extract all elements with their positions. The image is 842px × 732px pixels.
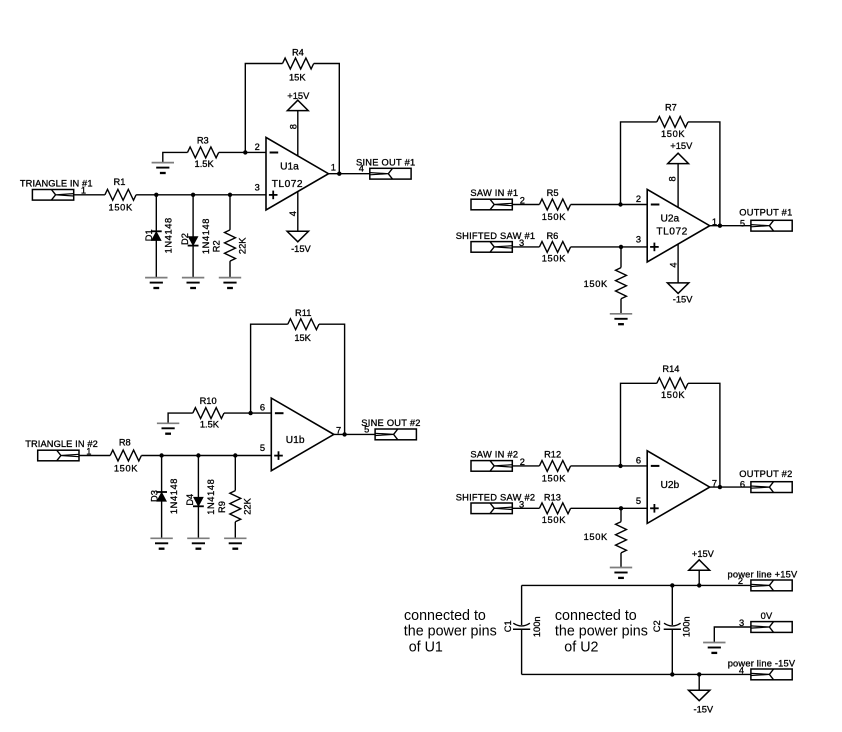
svg-text:+15V: +15V: [692, 549, 715, 559]
svg-text:of U1: of U1: [409, 640, 443, 656]
ground at R10: [157, 413, 193, 434]
resistor R9 22K: [217, 456, 253, 539]
svg-text:R12: R12: [544, 449, 561, 459]
node at D3: [159, 453, 163, 457]
connector SHIFTED SAW #2 (pin 3): [456, 492, 536, 513]
wire to op-amp - input: [224, 412, 271, 414]
resistor 150K to ground: [584, 508, 627, 567]
svg-text:R4: R4: [292, 47, 304, 57]
ground: [219, 277, 241, 279]
ground: [150, 537, 172, 539]
svg-text:C2: C2: [652, 620, 662, 632]
svg-text:R3: R3: [197, 135, 209, 145]
op-amp U1a: [266, 137, 329, 210]
svg-text:100n: 100n: [682, 616, 692, 637]
connector SINE OUT #1 (pin 4): [356, 157, 415, 179]
ground at R3: [152, 152, 188, 173]
note: connected to the power pins of U1: [404, 608, 497, 656]
svg-text:C1: C1: [503, 620, 513, 632]
connector SINE OUT #2 (pin 5): [361, 418, 420, 440]
wire op-amp output: [329, 173, 370, 175]
svg-text:15K: 15K: [294, 333, 311, 343]
node C2 bottom: [670, 672, 674, 676]
svg-text:D4: D4: [185, 494, 195, 506]
wire to op-amp - input: [571, 465, 648, 467]
svg-text:SINE OUT #1: SINE OUT #1: [356, 157, 415, 167]
svg-text:1N4148: 1N4148: [206, 479, 216, 515]
op-amp U2b: [647, 451, 710, 524]
svg-text:4: 4: [288, 211, 298, 216]
connector TRIANGLE IN #2 (pin 1): [25, 439, 98, 461]
connector TRIANGLE IN #1 (pin 1): [20, 178, 93, 200]
svg-text:150K: 150K: [542, 254, 566, 264]
resistor R3 1.5K: [188, 135, 219, 169]
connector SAW IN #1 (pin 2): [470, 188, 525, 210]
svg-text:8: 8: [667, 176, 677, 181]
svg-text:150K: 150K: [542, 515, 566, 525]
resistor R7 150K feedback: [621, 103, 720, 226]
node at R2: [228, 193, 232, 197]
wire R to op-amp + input: [141, 455, 271, 457]
svg-text:R13: R13: [544, 492, 561, 502]
connector OUTPUT #1 (pin 5): [739, 208, 792, 232]
svg-text:150K: 150K: [584, 279, 608, 289]
ground: [187, 537, 209, 539]
node at feedback: [248, 411, 252, 415]
note: connected to the power pins of U2: [555, 608, 648, 656]
svg-text:D3: D3: [149, 490, 159, 502]
wire to op-amp - input: [571, 204, 648, 206]
svg-text:4: 4: [739, 665, 744, 675]
svg-text:100n: 100n: [532, 616, 542, 637]
ground: [224, 537, 246, 539]
svg-text:-15V: -15V: [673, 295, 693, 305]
diode D1 1N4148: [144, 195, 174, 278]
svg-text:TL072: TL072: [272, 179, 303, 190]
wire: [512, 246, 539, 248]
svg-text:U1b: U1b: [286, 435, 305, 446]
wire: [512, 465, 539, 467]
svg-text:R1: R1: [114, 177, 126, 187]
resistor R2 22K: [212, 195, 248, 278]
svg-text:5: 5: [260, 443, 265, 453]
svg-text:150K: 150K: [114, 463, 138, 473]
ground 0V: [703, 642, 725, 644]
svg-text:R8: R8: [119, 438, 131, 448]
svg-text:15K: 15K: [289, 72, 306, 82]
svg-text:2: 2: [738, 576, 743, 586]
wire: [512, 507, 539, 509]
wire 0V to ground: [714, 627, 751, 643]
op-amp U2a: [647, 189, 710, 262]
connector SAW IN #2 (pin 2): [470, 449, 525, 471]
wire input to R: [79, 455, 110, 457]
svg-text:-15V: -15V: [291, 244, 311, 254]
svg-text:the power pins: the power pins: [404, 624, 497, 640]
resistor R14 150K feedback: [621, 364, 720, 487]
ground: [610, 567, 632, 569]
svg-text:150K: 150K: [584, 532, 608, 542]
power -15V symbol: [689, 674, 714, 714]
svg-text:3: 3: [636, 235, 641, 245]
node at R9: [233, 453, 237, 457]
svg-text:R14: R14: [662, 364, 679, 374]
node feedback: [618, 464, 622, 468]
svg-text:1N4148: 1N4148: [164, 217, 174, 253]
resistor R4 15K feedback: [245, 47, 339, 173]
output node: [718, 485, 722, 489]
node to ground resistor: [619, 506, 623, 510]
svg-text:150K: 150K: [109, 203, 133, 213]
svg-text:connected to: connected to: [555, 608, 637, 624]
node to ground resistor: [619, 245, 623, 249]
svg-text:OUTPUT #1: OUTPUT #1: [739, 208, 792, 218]
resistor R8 150K: [110, 438, 141, 474]
svg-text:6: 6: [260, 403, 265, 413]
svg-text:R10: R10: [200, 396, 217, 406]
node at feedback: [243, 150, 247, 154]
power -15V: [287, 192, 311, 254]
svg-text:D1: D1: [144, 229, 154, 241]
connector power line -15V (pin 4): [728, 658, 796, 679]
svg-text:1N4148: 1N4148: [169, 478, 179, 514]
resistor R12 150K: [539, 449, 570, 483]
wire: [512, 204, 539, 206]
wire to op-amp - input: [219, 151, 266, 153]
wire power rail +15V (top): [522, 584, 751, 586]
power +15V: [668, 141, 693, 207]
svg-text:1N4148: 1N4148: [201, 218, 211, 254]
svg-text:R9: R9: [217, 501, 227, 513]
svg-text:R7: R7: [665, 103, 677, 113]
node feedback: [618, 202, 622, 206]
svg-text:0V: 0V: [761, 611, 773, 621]
connector OUTPUT #2 (pin 6): [739, 469, 792, 493]
output node: [337, 172, 341, 176]
capacitor C1 100n: [503, 585, 542, 674]
svg-text:the power pins: the power pins: [555, 624, 648, 640]
node +15V: [697, 583, 701, 587]
node at D1: [154, 193, 158, 197]
connector power line +15V (pin 2): [728, 569, 799, 591]
wire power rail -15V (bottom): [522, 673, 751, 675]
wire to op-amp + input: [571, 507, 648, 509]
capacitor C2 100n: [652, 585, 692, 674]
wire op-amp output: [710, 486, 751, 488]
svg-text:3: 3: [255, 182, 260, 192]
svg-text:+15V: +15V: [287, 91, 310, 101]
svg-text:U2a: U2a: [661, 213, 680, 224]
diode D3 1N4148: [149, 456, 179, 539]
svg-text:TL072: TL072: [656, 226, 687, 237]
diode D4 1N4148: [185, 456, 216, 539]
svg-text:of U2: of U2: [564, 640, 598, 656]
svg-text:22K: 22K: [237, 237, 247, 254]
connector SHIFTED SAW #1 (pin 3): [456, 231, 536, 252]
resistor 150K to ground: [584, 247, 627, 314]
svg-text:8: 8: [288, 124, 298, 129]
resistor R1 150K: [105, 177, 136, 213]
resistor R13 150K: [539, 492, 570, 525]
svg-text:OUTPUT #2: OUTPUT #2: [739, 469, 792, 479]
resistor R10 1.5K: [193, 396, 224, 430]
svg-text:150K: 150K: [661, 390, 685, 400]
power +15V: [287, 91, 310, 156]
resistor R5 150K: [539, 188, 570, 222]
svg-text:U1a: U1a: [280, 162, 299, 173]
svg-text:connected to: connected to: [404, 608, 486, 624]
svg-text:R2: R2: [212, 240, 222, 252]
node C2 top: [670, 583, 674, 587]
svg-text:2: 2: [636, 194, 641, 204]
svg-text:R5: R5: [547, 188, 559, 198]
op-amp U1b: [271, 398, 334, 471]
wire to op-amp + input: [571, 246, 648, 248]
wire op-amp output: [710, 225, 751, 227]
svg-text:150K: 150K: [542, 473, 566, 483]
svg-text:1.5K: 1.5K: [195, 159, 215, 169]
wire input to R: [74, 194, 105, 196]
ground: [182, 277, 204, 279]
wire R to op-amp + input: [136, 194, 266, 196]
svg-text:150K: 150K: [542, 212, 566, 222]
power +15V symbol: [689, 549, 715, 585]
svg-text:4: 4: [669, 262, 679, 267]
svg-text:5: 5: [740, 218, 745, 228]
ground: [610, 313, 632, 315]
resistor R6 150K: [539, 231, 570, 264]
svg-text:R6: R6: [546, 231, 558, 241]
svg-text:1.5K: 1.5K: [200, 420, 220, 430]
svg-text:R11: R11: [295, 308, 311, 318]
svg-text:SINE OUT #2: SINE OUT #2: [361, 418, 420, 428]
node -15V: [697, 672, 701, 676]
svg-text:1: 1: [331, 163, 336, 173]
connector 0V (pin 3): [739, 611, 792, 633]
power -15V: [667, 244, 693, 305]
node at D4: [196, 453, 200, 457]
svg-text:5: 5: [364, 424, 369, 434]
node at D2: [191, 193, 195, 197]
wire op-amp output: [334, 433, 375, 435]
svg-text:22K: 22K: [243, 497, 253, 514]
output node: [342, 432, 346, 436]
svg-text:5: 5: [636, 496, 641, 506]
diode D2 1N4148: [180, 195, 211, 278]
svg-text:4: 4: [359, 164, 364, 174]
svg-text:D2: D2: [180, 233, 190, 245]
svg-text:-15V: -15V: [693, 705, 713, 715]
resistor R11 15K feedback: [251, 308, 345, 434]
svg-text:U2b: U2b: [661, 480, 680, 491]
svg-text:2: 2: [255, 142, 260, 152]
svg-text:SAW IN #1: SAW IN #1: [470, 188, 518, 198]
svg-text:6: 6: [636, 455, 641, 465]
svg-text:+15V: +15V: [670, 141, 693, 151]
svg-text:6: 6: [740, 480, 745, 490]
svg-text:150K: 150K: [661, 129, 685, 139]
svg-text:SAW IN #2: SAW IN #2: [470, 449, 518, 459]
ground: [145, 277, 167, 279]
output node: [718, 224, 722, 228]
